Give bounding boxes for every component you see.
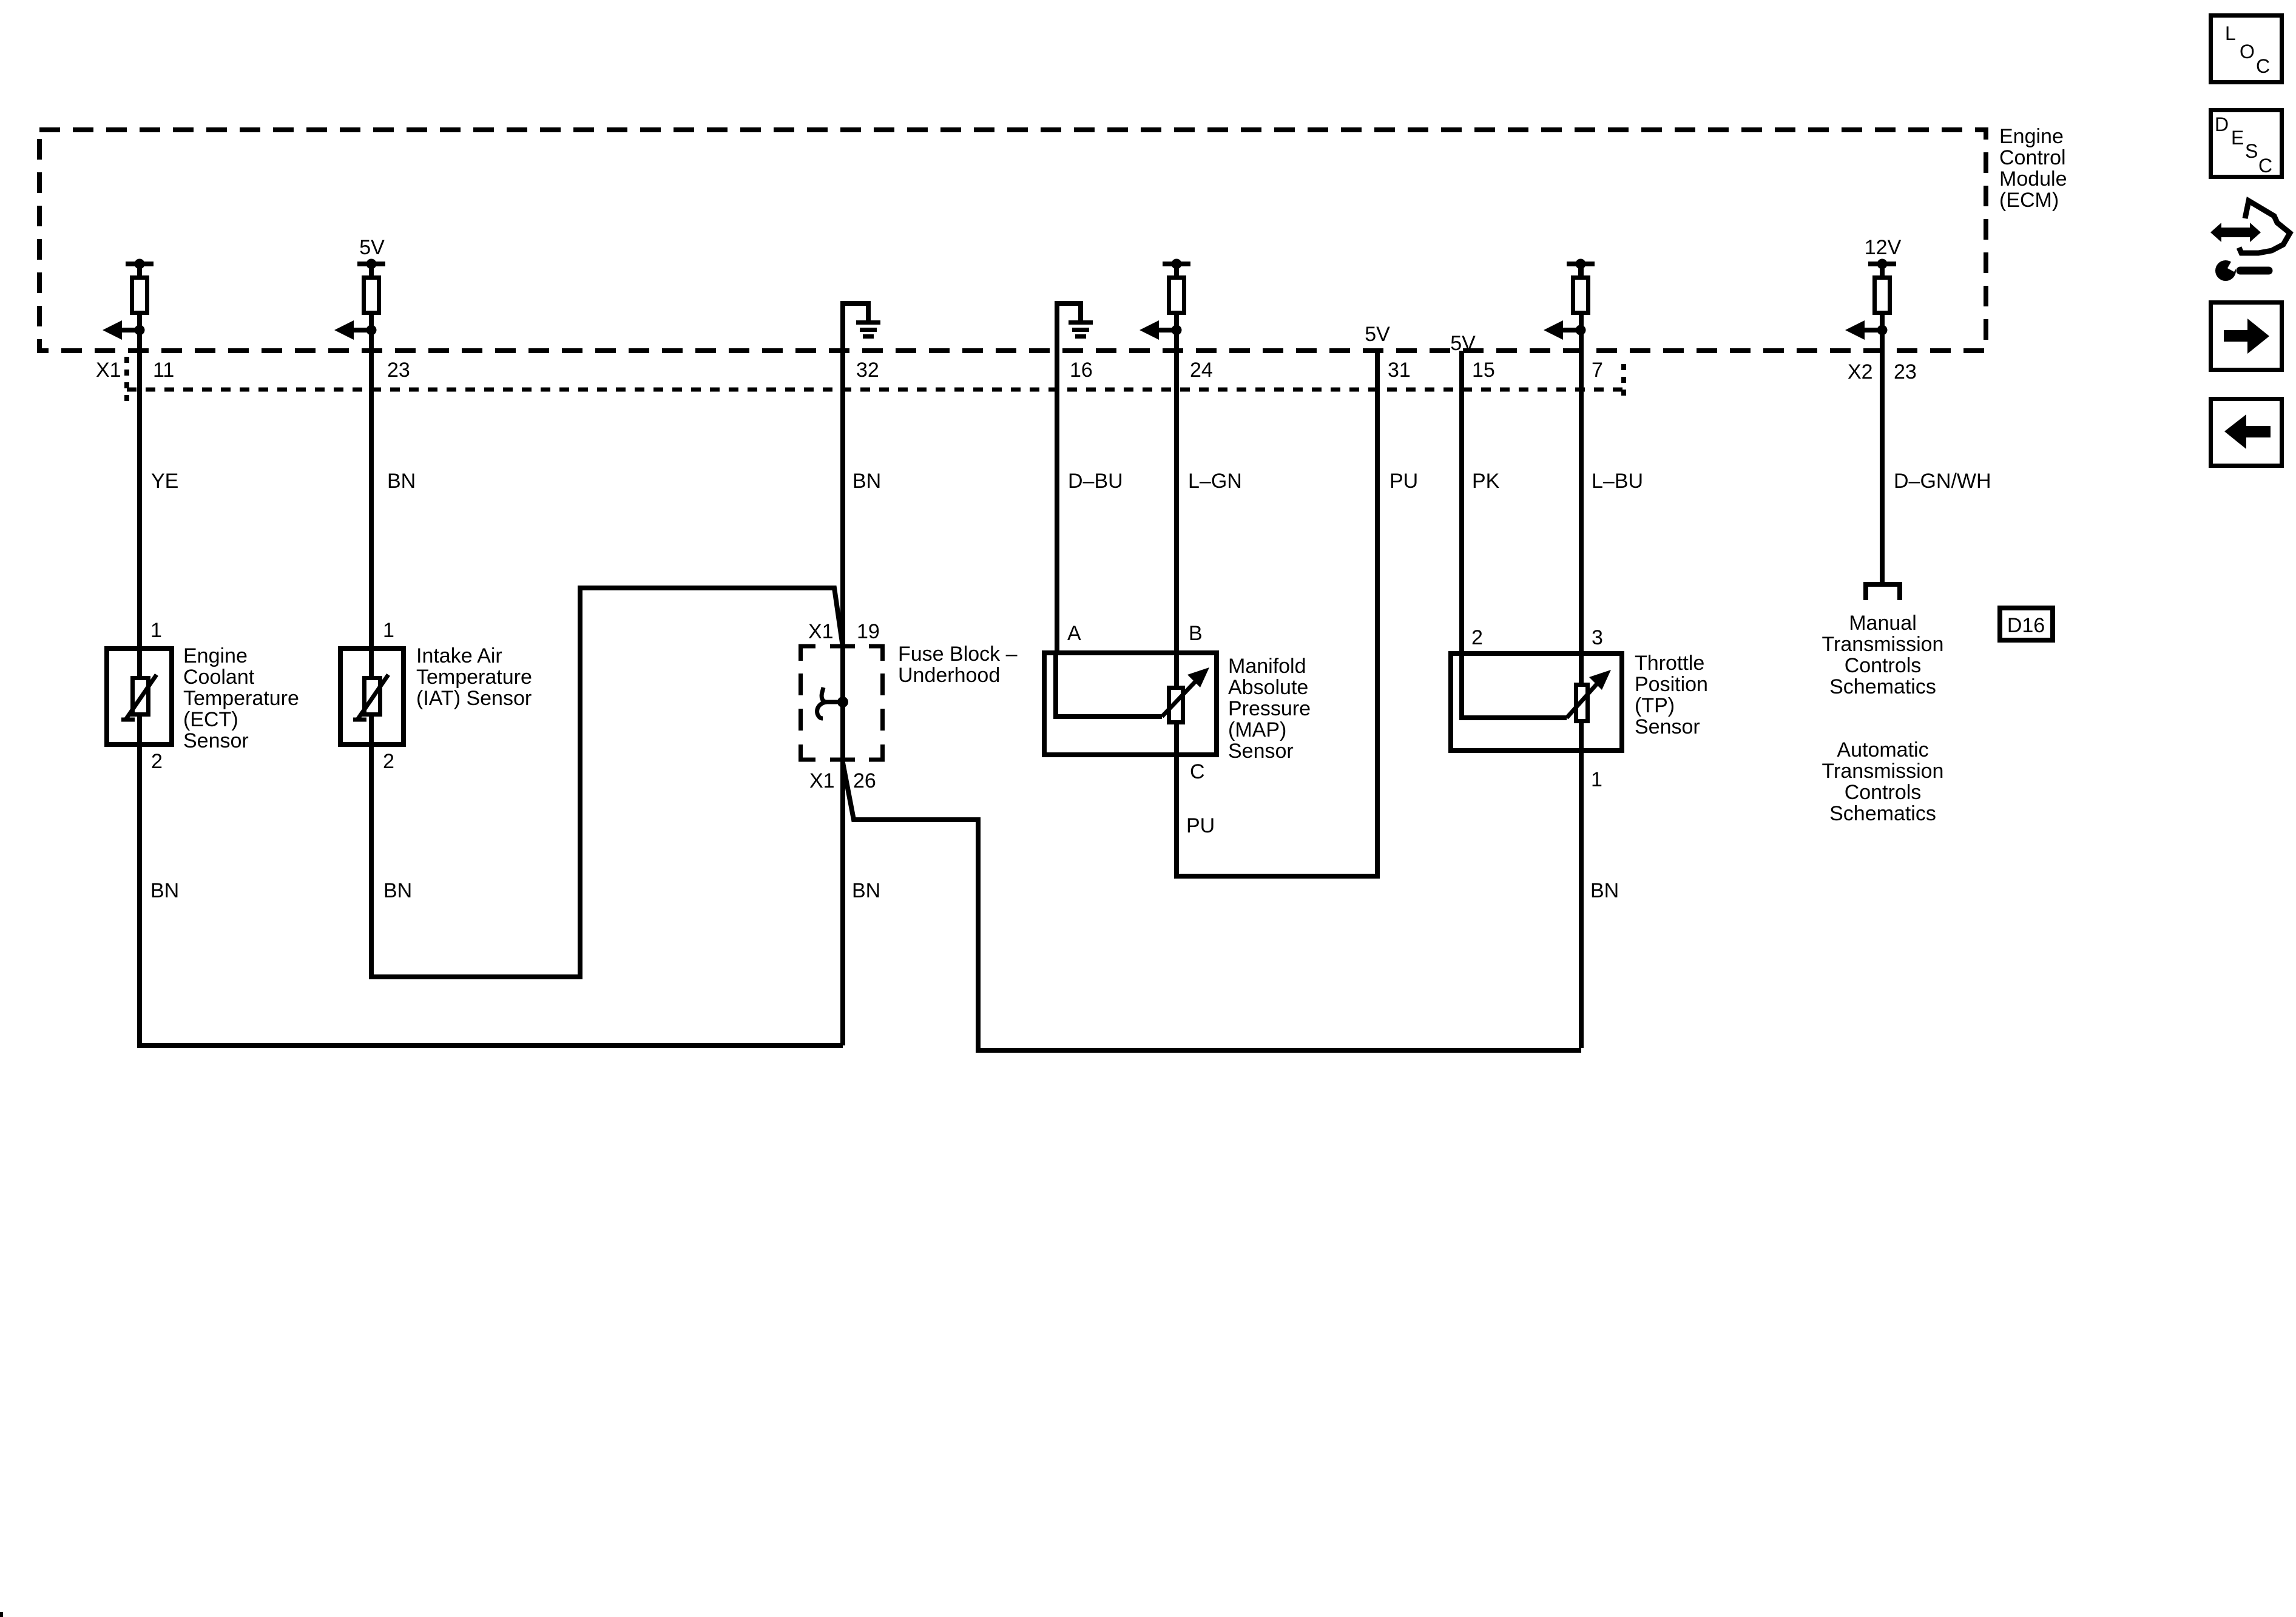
svg-text:PU: PU [1186,814,1215,837]
junction node in fuse block [837,697,848,707]
wire D-GN/WH : ECM X2 pin 23 12V to transmission controls [1880,266,1885,584]
thermistor element (ECT) [121,675,157,720]
svg-text:(ECM): (ECM) [1999,189,2059,212]
svg-text:23: 23 [1894,360,1917,383]
svg-text:1: 1 [150,619,162,642]
svg-text:A: A [1067,622,1081,645]
ECM (Engine Control Module) dashed box [39,130,1986,351]
svg-text:Controls: Controls [1845,781,1922,804]
svg-text:32: 32 [856,359,879,382]
svg-text:31: 31 [1388,359,1411,382]
arrow (signal direction) at X2 pin 23 (12V) [1845,320,1888,340]
svg-text:E: E [2231,127,2244,149]
svg-text:C: C [2256,55,2270,77]
svg-text:D16: D16 [2007,614,2045,637]
svg-text:B: B [1189,622,1203,645]
wire L-GN / PU : ECM pin 24 to MAP sensor pin B, MAP pin C to ECM pin 31 [1177,266,1377,876]
svg-text:L–BU: L–BU [1592,470,1643,493]
svg-text:PU: PU [1389,470,1418,493]
svg-text:Coolant: Coolant [183,666,255,689]
svg-text:Module: Module [1999,167,2067,191]
svg-text:Manual: Manual [1849,612,1917,635]
arrow (signal direction) at pin 11 (ECT signal) [103,320,145,340]
svg-text:L: L [2225,22,2236,44]
svg-text:D–GN/WH: D–GN/WH [1894,470,1991,493]
svg-text:Sensor: Sensor [183,729,249,752]
svg-text:C: C [2258,155,2272,177]
svg-text:15: 15 [1472,359,1495,382]
svg-text:Pressure: Pressure [1228,697,1311,720]
svg-text:Transmission: Transmission [1822,633,1944,656]
svg-text:23: 23 [387,359,410,382]
ECM connector X1 dotted line [127,388,1622,392]
svg-text:BN: BN [852,879,880,902]
svg-text:26: 26 [853,769,876,792]
svg-text:(ECT): (ECT) [183,708,238,731]
svg-text:BN: BN [150,879,179,902]
svg-text:16: 16 [1070,359,1093,382]
svg-text:5V: 5V [1450,332,1476,355]
wire D-BU : ECM pin 16 ground to MAP sensor pin A [1057,303,1081,650]
svg-text:C: C [1190,760,1205,783]
ground symbol at ECM pin 16 [1069,323,1093,337]
MAP sensor name label [1228,655,1311,763]
svg-text:L–GN: L–GN [1188,470,1242,493]
Fuse Block - Underhood dashed box [799,644,885,761]
resistor pin 24 (MAP signal) pull-up inside ECM [1163,259,1190,313]
svg-text:Schematics: Schematics [1829,802,1936,825]
svg-text:BN: BN [387,470,416,493]
TP potentiometer element [1567,670,1611,721]
hand with wrench icon [2210,201,2290,281]
fuse block name label [898,643,1018,687]
svg-text:X1: X1 [809,769,835,792]
resistor pin 11 (ECT signal) pull-up inside ECM [126,259,154,313]
svg-text:1: 1 [1591,768,1602,791]
svg-text:19: 19 [857,620,880,643]
svg-text:Engine: Engine [183,644,248,667]
svg-text:Automatic: Automatic [1837,738,1928,761]
svg-text:(IAT) Sensor: (IAT) Sensor [416,687,532,710]
DESC icon box [2211,110,2282,177]
X1 connector right tick [1621,364,1626,400]
svg-text:(TP): (TP) [1635,694,1675,717]
svg-text:Absolute: Absolute [1228,676,1308,699]
svg-text:Fuse Block –: Fuse Block – [898,643,1018,666]
svg-text:X1: X1 [96,359,121,382]
wire BN : ECM pin 32 ground, through Fuse Block X1-19/X1-26 [843,303,868,1045]
svg-text:5V: 5V [1365,323,1390,346]
svg-text:2: 2 [383,750,394,773]
X1 connector left tick [124,357,129,402]
svg-text:12V: 12V [1865,236,1902,259]
svg-text:Underhood: Underhood [898,664,1000,687]
Automatic Transmission Controls Schematics label [1822,738,1944,825]
svg-text:Manifold: Manifold [1228,655,1306,678]
IAT sensor box [340,649,403,744]
svg-text:3: 3 [1592,626,1603,649]
svg-text:X1: X1 [808,620,834,643]
ECT sensor name label [183,644,299,752]
svg-text:BN: BN [1590,879,1619,902]
svg-text:D–BU: D–BU [1068,470,1123,493]
wire YE / BN : ECM pin 11 to ECT sensor to fuse block X1-26 net [140,266,843,1045]
svg-text:Position: Position [1635,673,1708,696]
node D16 reference box [2000,608,2053,640]
arrow (signal direction) at pin 24 (MAP signal) [1140,320,1182,340]
wire PK : ECM pin 15 5V to TP sensor pin 2 [1462,351,1567,718]
svg-text:2: 2 [1471,626,1483,649]
TP sensor name label [1635,652,1708,738]
svg-text:7: 7 [1592,359,1603,382]
svg-text:Intake Air: Intake Air [416,644,502,667]
svg-text:O: O [2240,41,2255,62]
svg-text:5V: 5V [359,236,385,259]
page corner mark [0,1612,3,1617]
resistor X2 pin 23 (12V) pull-up inside ECM [1868,259,1896,313]
wire BN : ECM pin 23 / IAT sensor ground branch to fuse block X1-19 [371,266,843,977]
ECT sensor box [107,649,172,744]
Manual Transmission Controls Schematics label [1822,612,1944,698]
svg-text:Throttle: Throttle [1635,652,1704,675]
LOC icon box [2211,16,2282,83]
svg-text:Transmission: Transmission [1822,760,1944,783]
svg-text:BN: BN [383,879,412,902]
svg-text:X2: X2 [1848,360,1873,383]
svg-text:Sensor: Sensor [1228,740,1294,763]
svg-text:Schematics: Schematics [1829,675,1936,698]
svg-text:Temperature: Temperature [416,666,532,689]
wire L-BU / BN : ECM pin 7 to TP sensor pin 3, TP pin 1 down [1579,266,1584,1048]
svg-text:Temperature: Temperature [183,687,299,710]
fuse element inside fuse block [817,687,843,718]
MAP potentiometer element [1056,650,1209,723]
svg-text:PK: PK [1472,470,1500,493]
svg-text:11: 11 [153,359,174,382]
MAP sensor box [1044,653,1217,755]
wire BN : fuse block X1-26 branch to TP sensor pin 1 [843,763,1581,1050]
IAT sensor name label [416,644,532,710]
svg-text:1: 1 [383,619,394,642]
resistor pin 23 (IAT signal) pull-up inside ECM [357,259,385,313]
svg-text:Engine: Engine [1999,125,2064,148]
svg-text:Controls: Controls [1845,654,1922,677]
off-page connector bracket (to transmission controls) [1866,584,1900,600]
svg-text:Sensor: Sensor [1635,715,1700,738]
svg-text:2: 2 [151,750,163,773]
forward arrow icon box [2211,303,2282,370]
ground symbol at ECM pin 32 [856,323,880,337]
arrow (signal direction) at pin 7 (TP signal) [1544,320,1586,340]
TP sensor box [1451,653,1622,751]
back arrow icon box [2211,399,2282,466]
resistor pin 7 (TP signal) pull-up inside ECM [1567,259,1595,313]
ECM name label [1999,125,2067,212]
svg-text:YE: YE [151,470,178,493]
arrow (signal direction) at pin 23 (IAT signal) [334,320,377,340]
svg-text:S: S [2245,140,2258,162]
svg-text:24: 24 [1190,359,1213,382]
svg-text:BN: BN [853,470,881,493]
svg-text:(MAP): (MAP) [1228,718,1286,741]
svg-text:Control: Control [1999,146,2066,169]
thermistor element (IAT) [353,675,388,720]
svg-text:D: D [2215,113,2229,135]
